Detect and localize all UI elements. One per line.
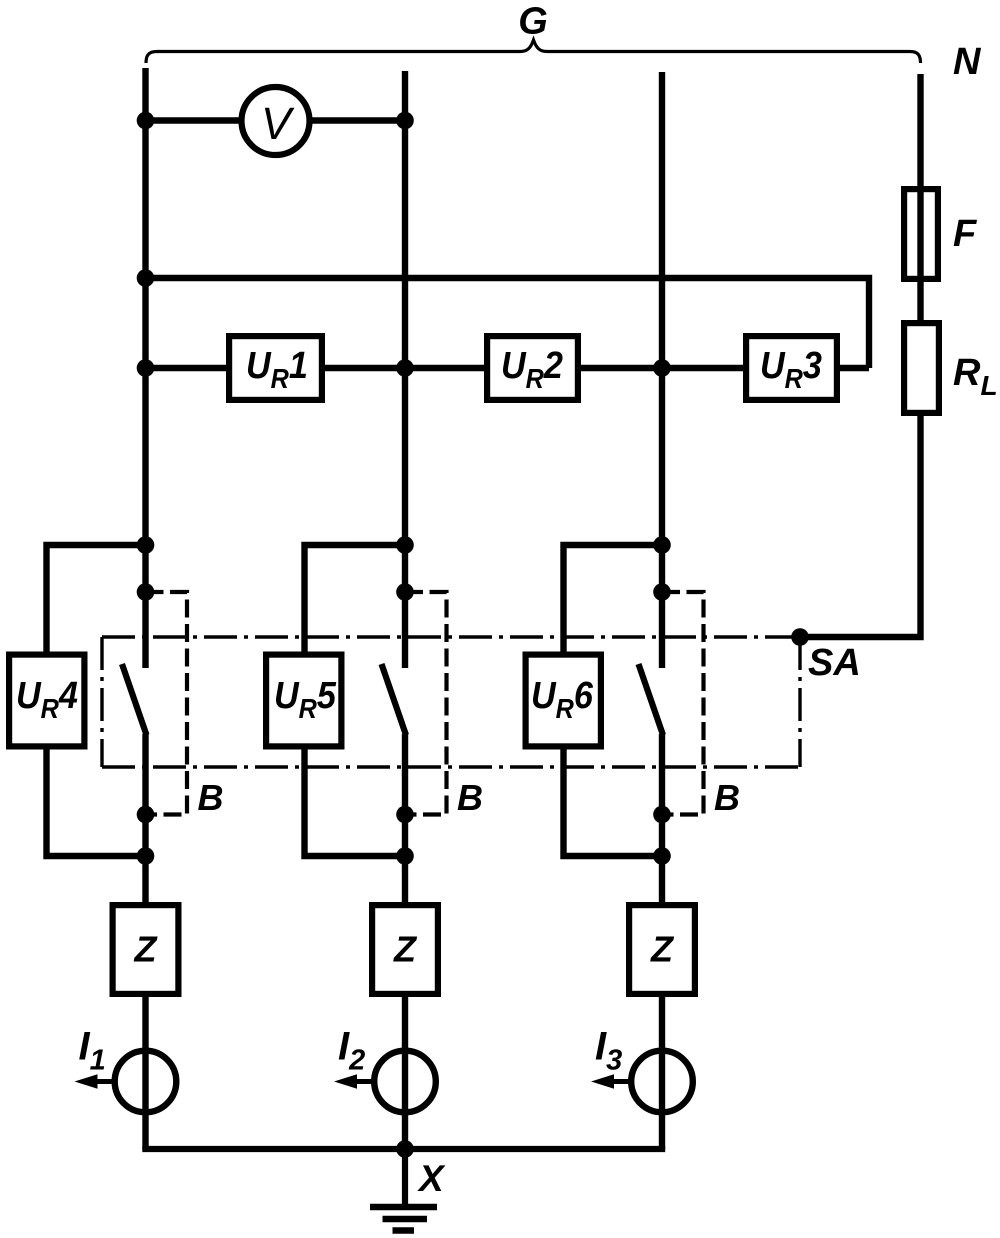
current transducer I2 circle bbox=[374, 1051, 436, 1113]
svg-text:B: B bbox=[714, 777, 740, 818]
label UR4 bbox=[16, 673, 78, 724]
wire UR6 parallel branch bbox=[564, 545, 663, 856]
svg-text:B: B bbox=[457, 777, 483, 818]
wire bus L2 lower bbox=[402, 734, 408, 1149]
resistor box UR3 bbox=[746, 336, 837, 400]
wire bottom return bbox=[142, 1146, 665, 1152]
resistor box UR2 bbox=[487, 336, 578, 400]
switch B1 blade bbox=[122, 664, 147, 735]
svg-text:RL: RL bbox=[953, 352, 998, 401]
wire bus L3 lower bbox=[659, 734, 665, 1149]
resistor box UR4 bbox=[9, 655, 84, 747]
resistor RL bbox=[904, 323, 939, 413]
svg-text:I3: I3 bbox=[595, 1025, 622, 1077]
wire bus L1 upper bbox=[142, 68, 148, 668]
svg-text:V: V bbox=[261, 98, 295, 149]
switch B2 dashed enclosure bbox=[405, 592, 447, 815]
current I2 arrow bbox=[353, 1079, 372, 1084]
current transducer I1 circle bbox=[115, 1051, 177, 1113]
svg-text:SA: SA bbox=[808, 642, 861, 684]
label UR6 bbox=[531, 673, 594, 724]
switch B2 blade bbox=[382, 664, 407, 735]
mechanical linkage dash-dot right bbox=[798, 637, 801, 767]
svg-text:Z: Z bbox=[650, 929, 675, 970]
mechanical linkage dash-dot bottom bbox=[102, 765, 800, 768]
mechanical linkage dash-dot top bbox=[102, 635, 792, 638]
svg-text:F: F bbox=[953, 213, 978, 255]
label UR5 bbox=[274, 673, 337, 724]
wire voltmeter branch bbox=[146, 117, 406, 123]
svg-text:Z: Z bbox=[393, 929, 418, 970]
wire bus N upper bbox=[917, 74, 923, 320]
switch B3 dashed enclosure bbox=[662, 592, 704, 815]
current transducer I3 circle bbox=[631, 1051, 693, 1113]
wire bus L2 upper bbox=[402, 71, 408, 668]
svg-text:I1: I1 bbox=[79, 1025, 106, 1077]
label UR3 bbox=[760, 343, 822, 394]
svg-text:G: G bbox=[518, 1, 548, 43]
wire UR5 parallel branch bbox=[305, 545, 406, 856]
label UR2 bbox=[501, 343, 563, 394]
resistor box UR5 bbox=[266, 655, 341, 747]
svg-text:I2: I2 bbox=[338, 1025, 365, 1077]
wire bus L3 upper bbox=[659, 72, 665, 668]
switch B1 dashed enclosure bbox=[146, 592, 188, 815]
fuse F bbox=[904, 189, 938, 279]
impedance Z3 box bbox=[629, 905, 695, 994]
impedance Z1 box bbox=[113, 905, 179, 994]
wire UR1-UR2-UR3 row (y=368) bbox=[146, 365, 870, 371]
ground X symbol bbox=[370, 1207, 437, 1231]
resistor box UR1 bbox=[229, 336, 322, 400]
wire UR4 parallel branch bbox=[47, 545, 146, 856]
svg-text:B: B bbox=[198, 777, 224, 818]
svg-text:N: N bbox=[953, 41, 982, 83]
brace G bbox=[146, 40, 921, 63]
current I1 arrow bbox=[94, 1079, 113, 1084]
switch B3 blade bbox=[639, 664, 664, 735]
resistor box UR6 bbox=[526, 655, 601, 747]
impedance Z2 box bbox=[372, 905, 438, 994]
svg-text:Z: Z bbox=[134, 929, 159, 970]
current I3 arrow bbox=[610, 1079, 629, 1084]
mechanical linkage dash-dot left bbox=[100, 637, 103, 767]
wire bus N lower (RL to SA node) bbox=[800, 416, 921, 637]
wire ground stem bbox=[402, 1149, 408, 1206]
voltmeter V1 body bbox=[242, 87, 310, 155]
svg-text:X: X bbox=[417, 1158, 446, 1199]
wire feedback line (y=278) bbox=[146, 278, 870, 368]
label UR1 bbox=[246, 343, 308, 394]
wire bus L1 lower bbox=[142, 734, 148, 1149]
